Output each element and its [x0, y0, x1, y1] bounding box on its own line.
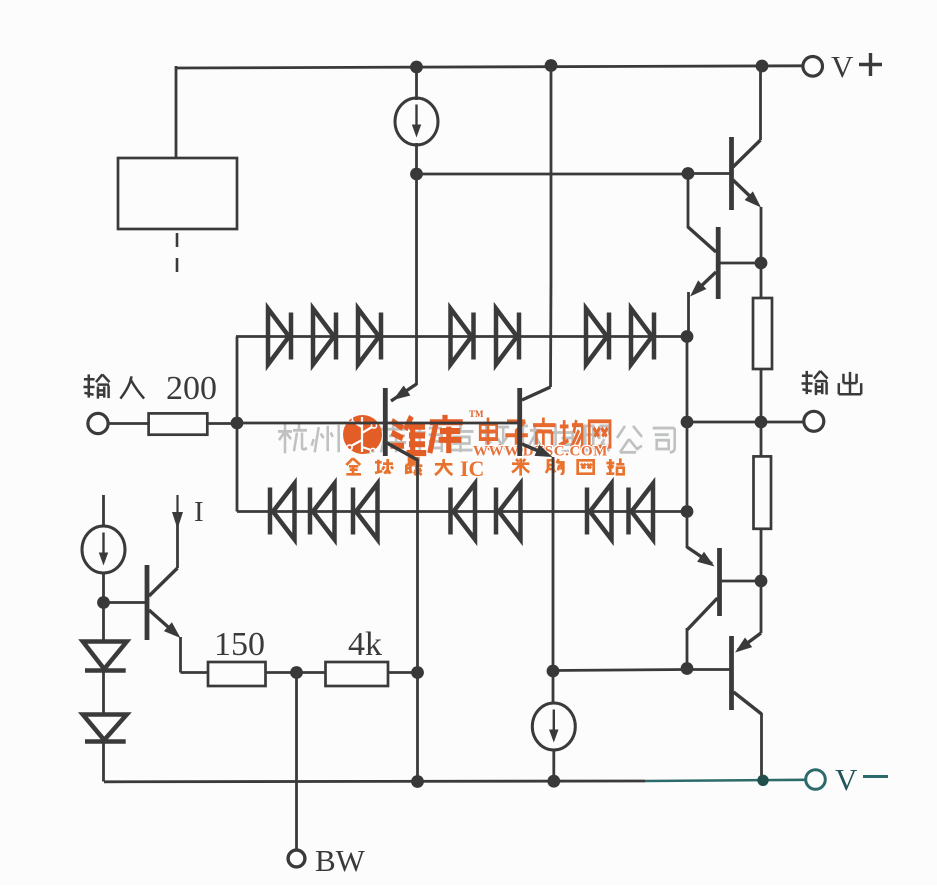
node: junction BW [290, 666, 303, 679]
transistor Q4 base bar [717, 548, 722, 616]
wire: CS1 bottom stub [415, 143, 418, 174]
transistor Q2 emitter with arrow [697, 272, 716, 290]
wire: x687 output row down to bottom diode row [686, 422, 689, 512]
transistor Q3 (PNP, middle-left) emitter from CS1 line [391, 384, 417, 401]
wire: Q7 collector up with current arrow I [176, 512, 179, 568]
transistor Q1 base bar [729, 137, 734, 210]
current source CS2 stub [102, 495, 105, 527]
transistor Q2 base bar [716, 227, 721, 299]
diode D3 (top row, pointing right) [358, 309, 379, 365]
svg-text:BW: BW [315, 843, 366, 878]
node: input junction [231, 417, 244, 430]
current source CS2 [82, 526, 125, 573]
diode D14 (bottom row, pointing left) [626, 488, 631, 535]
diode D16 (vertical, left chain) [83, 715, 127, 741]
diode D12 (bottom row, pointing left) [494, 488, 499, 535]
wire: input node up to top diode row [236, 337, 239, 424]
node: junction top rail / Q1 collector [756, 60, 769, 73]
resistor R1 (vertical, upper right) [760, 263, 763, 298]
node: junction output/x687 [681, 416, 694, 429]
node: junction Q1 base [682, 167, 695, 180]
wire: R150 to BW node [266, 671, 297, 674]
wire: Q7 emitter down and right to R150 [179, 637, 182, 673]
resistor R4k (horizontal) [326, 662, 389, 686]
dashed stub below box [176, 233, 179, 274]
transistor Q2 (NPN) base diagonal [688, 227, 716, 252]
diode D11 (bottom row, pointing left) [448, 488, 453, 535]
wire: BW vertical [295, 673, 298, 851]
wire: vertical x=687 top row to output row [686, 337, 689, 423]
wire: Q5 base [687, 668, 732, 671]
wire: Q4 base to divider node [721, 580, 761, 583]
output terminal circle [804, 411, 824, 431]
transistor Q1 emitter with arrow [733, 180, 757, 203]
node: junction Q7 base [97, 596, 110, 609]
watermark big orange 维库 [390, 416, 426, 453]
svg-text:TM: TM [469, 409, 484, 419]
V- terminal circle [806, 770, 826, 790]
resistor R150 (horizontal) [208, 662, 266, 686]
transistor Q6 (NPN, middle-right) base bar [517, 388, 522, 456]
svg-text:I: I [460, 456, 469, 481]
wire: input node down to bottom diode row [236, 423, 239, 512]
watermark: gray company name 杭州维库信息技术有限公司 [278, 424, 307, 454]
wire: vertical from top rail down to Q6 collector [550, 66, 553, 281]
diode D2 (top row, pointing right) [313, 309, 334, 365]
transistor Q7 emitter with arrow [149, 610, 176, 634]
label 输出 [801, 371, 827, 395]
transistor Q7 (NPN) base bar [145, 565, 150, 640]
node: junction Q4 base node [755, 575, 768, 588]
diode D13 (bottom row, pointing left) [585, 488, 590, 535]
wire: Q1 base [688, 172, 732, 175]
wire: V- bottom rail (black part) [104, 780, 645, 784]
input terminal circle [88, 413, 108, 433]
current source CS3 [552, 671, 555, 704]
watermark logo: orange circle with circuit tree [343, 415, 382, 454]
transistor Q5 base bar [729, 636, 734, 710]
diode D4 (top row, pointing right) [451, 309, 472, 365]
wire: Q6 emitter down to CS3 [552, 457, 555, 671]
current source CS1 [395, 98, 438, 145]
watermark outlined 电子市场网 [480, 418, 500, 450]
transistor Q6 collector diagonal [522, 387, 551, 400]
node: junction output/resistors [755, 416, 768, 429]
label 输入 [83, 374, 109, 398]
svg-text:I: I [194, 496, 204, 528]
diode D9 (bottom row, pointing left) [308, 488, 313, 535]
svg-text:V: V [831, 49, 854, 84]
transistor Q6 emitter with arrow [522, 444, 548, 455]
wire: V- rail teal segment [645, 780, 806, 781]
diode D10 (bottom row, pointing left) [351, 488, 356, 535]
node: junction rail / CS3 [547, 775, 560, 788]
resistor R200 (horizontal) [149, 413, 208, 434]
transistor Q3 base bar [383, 388, 388, 456]
diode D15 (vertical, left chain) [102, 603, 105, 643]
transistor Q5 (PNP) emitter diagonal with arrow [738, 633, 761, 650]
wire: Q2 emitter down to diode row node [687, 292, 690, 337]
wire: vertical CS1 down to Q3 emitter [415, 174, 418, 385]
BW terminal circle [288, 850, 305, 867]
wire: input node to Q3 base [237, 422, 383, 425]
transistor Q3 collector diagonal [387, 443, 418, 460]
transistor Q5 collector diagonal [734, 692, 762, 714]
wire: R4k to x417 line [388, 671, 418, 674]
box: unlabeled block (bias network) [118, 158, 237, 229]
wire: left chain down to V- rail corner [102, 742, 105, 782]
diode D8 (bottom row, pointing left) [268, 488, 273, 535]
diode D6 (top row, pointing right) [586, 309, 607, 365]
wire: CS1 top stub [415, 67, 418, 100]
transistor Q4 collector diagonal [687, 598, 718, 630]
wire: Q3/Q6 base link [387, 422, 518, 425]
svg-text:4k: 4k [348, 626, 382, 663]
node: junction Q1 emitter / Q2 collector / R1 [755, 257, 768, 270]
node: junction rail / x417 [411, 775, 424, 788]
svg-text:C: C [469, 456, 485, 481]
wire: output row [687, 421, 804, 424]
svg-text:150: 150 [214, 626, 265, 663]
wire: R200 to input node [207, 422, 237, 425]
diode D5 (top row, pointing right) [496, 309, 517, 365]
diode D7 (top row, pointing right) [631, 309, 652, 365]
node: junction top row right end [681, 330, 694, 343]
node: junction bottom row right end [681, 505, 694, 518]
svg-text:200: 200 [166, 370, 217, 407]
wire: Q5 base node to CS3 node [553, 670, 687, 671]
wire: Q2 collector to node [720, 262, 761, 265]
node: junction CS1 bottom [410, 168, 423, 181]
wire between left diodes [102, 669, 105, 715]
wire: vertical to Q2 input [687, 174, 690, 229]
wire: bottom diode row [237, 510, 687, 513]
node: junction R4k / Q3 collector line [411, 666, 424, 679]
wire: input to R200 [108, 422, 149, 425]
V+ terminal circle [803, 57, 823, 77]
wire: top diode row [236, 335, 687, 338]
wire: BW node to R4k [297, 671, 326, 674]
node: junction rail / Q5 collector [757, 775, 768, 786]
svg-text:V: V [835, 762, 858, 797]
resistor R2 (vertical, right middle) [760, 422, 763, 456]
diode D1 (top row, pointing right) [268, 309, 289, 365]
node: junction top rail / Q6 collector line [545, 59, 558, 72]
node: junction CS3 top [547, 665, 560, 678]
wire: Q5 collector down to V- rail [760, 713, 763, 781]
wire: drop from rail to box [175, 66, 178, 158]
wire: V+ top rail [176, 66, 803, 68]
wire: Q1 emitter down to node [760, 207, 763, 263]
transistor Q4 (PNP) emitter diagonal with arrow [687, 547, 712, 564]
watermark slogan 全球最大IC采购网站 [346, 458, 361, 474]
node: junction Q4 collector / Q5 base [681, 662, 694, 675]
node: junction top rail / current source CS1 [410, 61, 423, 74]
wire: Q3 collector line down to V- rail [416, 459, 419, 782]
wire: Q7 base [104, 601, 146, 604]
transistor Q1 (NPN) collector wire [759, 66, 762, 140]
wire: bottom row node down to Q4 emitter [686, 512, 689, 549]
wire: horizontal CS1 to Q1 base node [417, 173, 689, 176]
transistor Q7 collector diagonal [149, 568, 178, 596]
